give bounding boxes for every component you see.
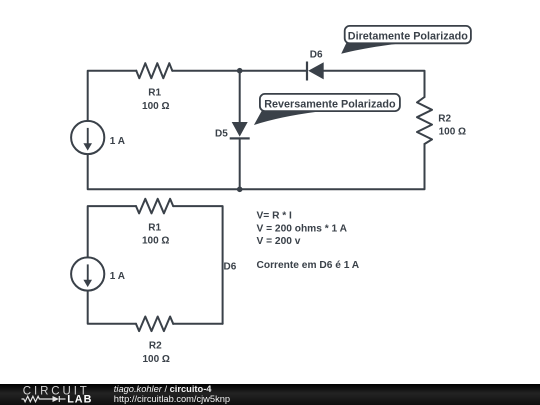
node A junction dot: [237, 68, 243, 74]
wire R1 to top-right corner down (bottom circuit, diode D6 net): [173, 206, 222, 324]
svg-text:http://circuitlab.com/cjw5knp: http://circuitlab.com/cjw5knp: [114, 394, 230, 404]
label R2 value (top circuit): [438, 113, 466, 137]
wire R1 to node A: [172, 70, 239, 72]
svg-text:R2: R2: [149, 340, 162, 351]
wire top-left segment (bottom circuit): [88, 206, 136, 257]
wire R2 to bottom-right corner and left to node B: [240, 144, 425, 189]
wire top-left segment (top circuit): [88, 71, 137, 121]
resistor R2 (bottom circuit) zigzag: [136, 317, 173, 332]
svg-text:LAB: LAB: [67, 393, 92, 405]
svg-text:D6: D6: [224, 262, 237, 273]
label R1 value (bottom circuit): [142, 223, 169, 247]
svg-text:D5: D5: [215, 128, 228, 139]
svg-text:100 Ω: 100 Ω: [439, 127, 466, 138]
callout: Reversamente Polarizado: [254, 94, 400, 125]
svg-text:100 Ω: 100 Ω: [142, 236, 169, 247]
svg-text:tiago.kohler / circuito-4: tiago.kohler / circuito-4: [114, 384, 213, 394]
label R2 value (bottom circuit): [142, 340, 169, 365]
svg-text:R1: R1: [148, 223, 161, 234]
current source I2 arrow (bottom circuit): [83, 264, 92, 287]
svg-text:R2: R2: [438, 113, 451, 124]
footer credit text: [114, 384, 230, 404]
svg-text:100 Ω: 100 Ω: [142, 101, 169, 112]
CircuitLab logo schematic squiggle (resistor + diode): [22, 396, 66, 402]
current source I1 circle: [71, 121, 104, 154]
svg-text:Corrente em D6 é 1 A: Corrente em D6 é 1 A: [257, 260, 360, 271]
svg-text:V= R * I: V= R * I: [257, 211, 293, 222]
svg-text:1 A: 1 A: [110, 271, 125, 282]
resistor R1 (bottom circuit) zigzag: [136, 199, 173, 214]
resistor R1 (top circuit) zigzag: [136, 63, 172, 78]
node B junction dot: [237, 187, 243, 193]
diode D6 symbol: [306, 62, 324, 81]
label R1 value (top circuit): [142, 88, 169, 112]
wire R2 to bottom-left corner up to current source (bottom circuit): [88, 291, 136, 324]
svg-text:R1: R1: [148, 88, 161, 99]
svg-text:V = 200 v: V = 200 v: [257, 236, 301, 247]
current source I1 arrow: [83, 128, 92, 151]
svg-text:Diretamente Polarizado: Diretamente Polarizado: [348, 30, 468, 42]
annotation equations text: [257, 211, 360, 271]
svg-text:1 A: 1 A: [110, 136, 125, 147]
svg-text:D6: D6: [310, 50, 323, 61]
diode D5 symbol: [230, 122, 250, 140]
svg-text:100 Ω: 100 Ω: [142, 354, 169, 365]
callout: Diretamente Polarizado: [341, 26, 471, 54]
svg-text:V = 200 ohms * 1 A: V = 200 ohms * 1 A: [257, 223, 348, 234]
wire bottom-right to R2 (bottom circuit): [173, 323, 222, 325]
wire node A to diode D6: [240, 70, 307, 72]
current source I2 circle (bottom circuit): [71, 257, 104, 290]
resistor R2 (top circuit) zigzag vertical: [417, 97, 432, 144]
svg-text:Reversamente Polarizado: Reversamente Polarizado: [264, 98, 396, 110]
wire node A down to diode D5: [239, 71, 241, 123]
wire D6 to top-right corner and down to R2: [324, 71, 425, 97]
wire node B to bottom-left corner and up to current source: [88, 154, 240, 189]
wire diode D5 to node B: [239, 138, 241, 189]
